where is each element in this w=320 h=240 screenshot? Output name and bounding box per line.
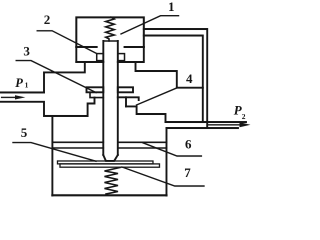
leader 4 [136,88,177,105]
svg-text:4: 4 [186,71,193,86]
spool cross arm right stub [118,87,133,92]
spring seat tab left [97,54,104,61]
outlet duct top wall [165,121,245,123]
leader 3 [16,61,96,93]
spool column [102,41,104,155]
bottom chamber box bottom [52,194,166,196]
leader 6 [143,143,201,156]
body top wall left [44,62,85,93]
svg-text:1: 1 [168,0,175,14]
bottom chamber box right wall [165,128,167,196]
svg-text:2: 2 [44,12,51,27]
P1 inlet upper wall [0,91,44,93]
leader 1 [121,16,179,34]
svg-text:6: 6 [185,137,192,152]
svg-text:P: P [15,76,23,90]
valve seat plate lines [52,141,103,143]
diaphragm plate lower [60,164,160,167]
spring seat tab right [118,54,125,61]
feedback pipe (outer line) [144,29,207,128]
P2 flow arrow [208,124,241,126]
valve seat lip left [90,92,103,97]
leader 7 [122,167,204,186]
leader 2 [37,31,97,54]
P1 inlet lower wall [0,98,95,116]
spring chamber box (top) [76,17,144,47]
leader 5 [13,143,96,162]
bonnet flange under spring box [76,46,96,48]
P1 flow arrow [2,96,17,98]
svg-text:5: 5 [21,125,28,140]
spool tip chamfer [103,155,118,161]
valve seat lip right / port step [118,97,139,100]
feedback pipe (inner line) [144,36,203,123]
spool top edge [103,40,117,42]
svg-text:7: 7 [184,165,191,180]
adjusting spring (top) [106,17,115,41]
svg-text:2: 2 [242,112,246,121]
svg-text:1: 1 [25,81,29,90]
bottom chamber box left wall [51,116,53,195]
outlet duct bottom wall [166,127,238,129]
bottom spring [104,167,120,194]
diaphragm plate upper [57,161,153,164]
svg-text:3: 3 [23,43,30,58]
body top wall right [136,62,203,88]
spool cross arm left stub [87,87,104,92]
